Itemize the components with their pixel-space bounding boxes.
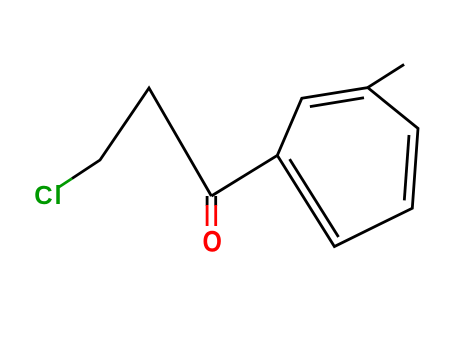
svg-text:Cl: Cl: [34, 182, 61, 210]
benzene ring: [277, 88, 418, 247]
ring double bond right: [404, 135, 409, 200]
C=O double bond red part: [206, 205, 209, 226]
methyl: [368, 64, 404, 87]
bond Cl-C1 green half: [58, 179, 73, 189]
bond C3-ring: [211, 155, 277, 196]
C=O double bond black part: [206, 196, 209, 206]
ring double bond top: [310, 98, 364, 107]
chain C1-C2-C3: [72, 88, 211, 196]
svg-text:O: O: [203, 226, 222, 259]
ring double bond bottom-left: [290, 159, 339, 237]
